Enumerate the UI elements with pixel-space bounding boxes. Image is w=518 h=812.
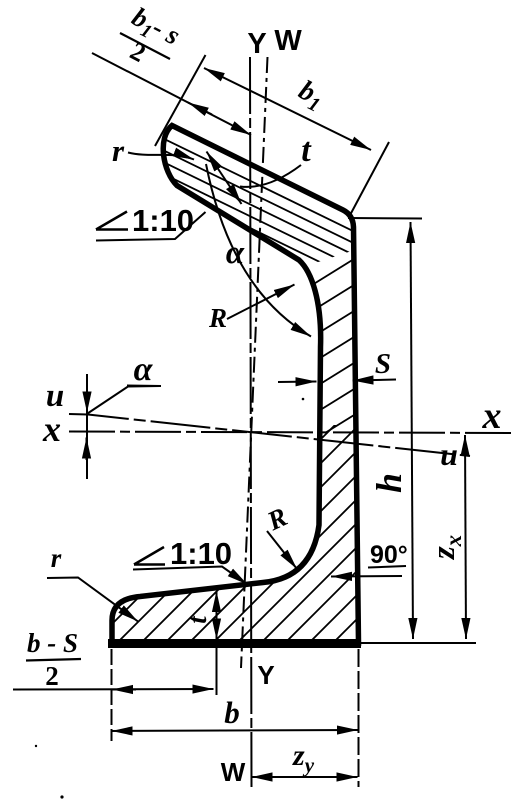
dimension s left arrow bbox=[278, 381, 317, 384]
leader r bottom bbox=[47, 578, 138, 622]
extension line flange tip bottom bbox=[111, 649, 113, 741]
dimension b bbox=[112, 730, 359, 731]
svg-text:R: R bbox=[208, 303, 227, 333]
axis W bbox=[241, 57, 268, 668]
svg-text:2: 2 bbox=[45, 661, 59, 691]
svg-text:b: b bbox=[224, 695, 240, 730]
dimension s right arrow bbox=[353, 380, 397, 381]
alpha label underline bbox=[127, 385, 161, 388]
axis X bbox=[69, 432, 513, 434]
dimension b1 bbox=[204, 68, 371, 150]
svg-text:S: S bbox=[375, 348, 391, 380]
svg-text:90°: 90° bbox=[370, 541, 408, 569]
svg-text:x: x bbox=[482, 395, 502, 437]
hatching elbow region bbox=[275, 168, 375, 490]
fraction bar b-s/2 bbox=[26, 659, 81, 661]
axis u bbox=[69, 414, 470, 456]
extension t bottom bbox=[216, 648, 218, 695]
section outline bbox=[112, 126, 359, 644]
leader 1:10 top bbox=[96, 212, 206, 241]
svg-text:α: α bbox=[134, 351, 154, 388]
label b1-s over 2 bbox=[113, 1, 185, 78]
angle alpha small arrows left bbox=[86, 374, 88, 479]
angle symbol top 1:10 bbox=[96, 212, 128, 230]
svg-text:u: u bbox=[440, 436, 458, 472]
svg-text:W: W bbox=[221, 757, 246, 787]
svg-text:1:10: 1:10 bbox=[170, 536, 232, 571]
leader t top bbox=[240, 165, 301, 187]
dimension z_y bbox=[252, 776, 358, 778]
label b1 bbox=[292, 75, 329, 117]
extension line web right bottom bbox=[358, 649, 360, 787]
extension line b1 tip bbox=[155, 55, 206, 146]
dimension z_x bbox=[465, 435, 466, 639]
svg-text:r: r bbox=[51, 543, 62, 573]
angle symbol bottom 1:10 bbox=[134, 547, 165, 565]
extension line bottom right bbox=[361, 642, 476, 644]
hatching parallel (top flange) bbox=[140, 127, 382, 304]
svg-text:h: h bbox=[369, 473, 409, 493]
bottom edge extra thick bbox=[108, 639, 361, 648]
svg-text:α: α bbox=[226, 235, 245, 271]
leader 1:10 bottom bbox=[133, 567, 248, 585]
dimension b-s/2 bbox=[13, 688, 214, 691]
dimension t top double arrow bbox=[207, 152, 242, 205]
dimension t bottom bbox=[216, 591, 218, 640]
extension line b1 corner bbox=[349, 142, 389, 217]
dimension h bbox=[411, 222, 414, 639]
axis Y bbox=[250, 57, 252, 787]
leader R top bbox=[227, 285, 295, 320]
fraction bar b1-s/2 bbox=[120, 33, 170, 59]
ink specks bbox=[302, 398, 305, 401]
leader alpha left bbox=[88, 386, 161, 414]
90deg underline and leader bbox=[368, 566, 406, 568]
svg-text:Y: Y bbox=[247, 28, 266, 60]
dimension b1-s/2 bbox=[92, 53, 251, 135]
svg-text:Y: Y bbox=[257, 660, 274, 690]
hatching 45deg (web + bottom flange) bbox=[0, 190, 518, 700]
svg-text:r: r bbox=[112, 133, 125, 168]
svg-text:x: x bbox=[42, 409, 61, 449]
svg-text:W: W bbox=[274, 25, 302, 57]
svg-text:1:10: 1:10 bbox=[132, 203, 194, 238]
leader R bottom bbox=[267, 531, 297, 569]
leader r top bbox=[128, 153, 194, 160]
svg-text:t: t bbox=[301, 132, 312, 169]
extension line h top bbox=[348, 217, 422, 220]
angle alpha arc bbox=[206, 164, 311, 337]
svg-text:b - S: b - S bbox=[27, 628, 78, 658]
